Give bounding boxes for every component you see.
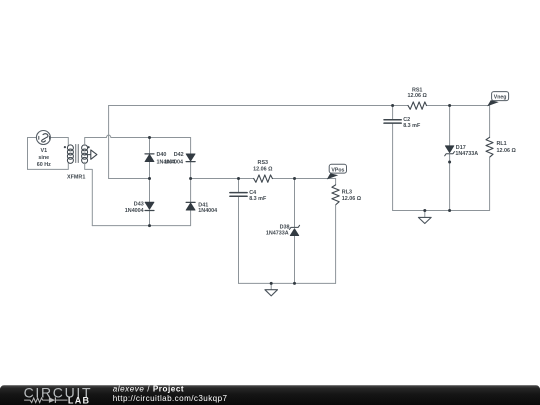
svg-text:D43: D43 [134,202,144,208]
capacitor C4 [230,193,247,197]
wire top rail right of RS1 [427,105,490,107]
diode D43 [145,202,154,210]
ground symbol (filter stage) [265,283,278,296]
svg-text:12.06 Ω: 12.06 Ω [253,167,273,173]
wire right ground rail [393,210,490,212]
wire mid rail RS3 to VPos corner [272,178,335,180]
junction dot bridge right mid [189,177,192,180]
resistor RS3 [254,175,273,182]
diode D40 [145,154,154,162]
transformer XFMR1 [64,144,97,163]
wire V1 top left segment [28,137,37,139]
junction dot D17 bottom [448,209,451,212]
svg-text:sine: sine [38,155,49,161]
core lines [76,144,78,162]
wire C4 branch top [238,179,240,193]
wire C2 branch bottom [392,124,394,211]
primary winding [67,145,73,151]
wire bridge right branch [190,138,192,226]
diode D42 [186,154,195,162]
svg-text:12.06 Ω: 12.06 Ω [342,196,362,202]
wire top rail left of RS1 [109,105,408,107]
wire D38 branch top [294,179,296,228]
wire transformer secondary bottom down to bridge bottom rail [85,162,93,225]
wire RL3 branch bottom [335,205,337,284]
svg-text:1N4004: 1N4004 [198,208,217,214]
secondary phase dot [88,146,90,148]
junction dot ground 1 [270,282,273,285]
wire top-left vertical from top rail [108,106,110,179]
diode D41 [186,202,195,210]
svg-text:http://circuitlab.com/c3ukqp7: http://circuitlab.com/c3ukqp7 [113,394,228,403]
junction dot bridge left mid [148,177,151,180]
wire mid rail bridge to RS3 [191,178,254,180]
wire C2 branch top [392,106,394,120]
node flag VPos [327,164,347,179]
svg-text:1N4733A: 1N4733A [266,231,289,237]
svg-text:D40: D40 [157,152,167,158]
junction dot bridge bottom [148,224,151,227]
resistor RS1 [408,102,427,109]
wire RL3 branch top [335,179,337,185]
svg-text:RL3: RL3 [342,190,352,196]
node flag Vneg [487,92,508,107]
zener diode D17 [445,146,455,156]
junction dot D17 top [448,104,451,107]
logo diode [49,397,55,403]
svg-text:VPos: VPos [331,167,344,173]
svg-text:D42: D42 [174,152,184,158]
svg-text:8.3 mF: 8.3 mF [403,123,421,129]
wire left mid to bridge [109,178,150,180]
junction dot D38 bottom [293,282,296,285]
junction dot bridge top [148,136,151,139]
junction dot ground 2 [423,209,426,212]
secondary winding [82,145,88,151]
footer background [0,385,540,405]
svg-text:60 Hz: 60 Hz [37,162,51,168]
wire bridge left branch [149,138,151,226]
resistor RL1 [486,137,493,157]
svg-text:RL1: RL1 [497,141,507,147]
FOOTER BAR [0,384,540,405]
svg-text:12.06 Ω: 12.06 Ω [497,148,517,154]
svg-text:alexeve / Project: alexeve / Project [113,385,184,394]
wire RL1 branch bottom [489,157,491,210]
svg-text:Vneg: Vneg [494,95,507,101]
wire mid bottom rail [239,282,336,284]
svg-text:XFMR1: XFMR1 [67,174,85,180]
wire D38 branch bottom [294,236,296,284]
svg-text:V1: V1 [41,148,48,154]
wire RL1 branch top [489,106,491,138]
svg-text:D38: D38 [280,224,290,230]
wire bridge bottom rail [92,225,190,227]
svg-text:LAB: LAB [68,396,90,405]
primary phase dot [64,146,66,148]
svg-text:1N4004: 1N4004 [164,160,183,166]
svg-text:RS3: RS3 [258,160,269,166]
logo resistor zigzag [24,398,49,403]
svg-text:8.3 mF: 8.3 mF [249,196,267,202]
ground symbol (regulator stage) [418,211,431,224]
svg-text:12.06 Ω: 12.06 Ω [408,93,428,99]
wire V1 bottom to transformer primary bottom [28,162,69,169]
svg-text:1N4733A: 1N4733A [455,151,478,157]
junction dot C2 top [391,104,394,107]
capacitor C2 [384,120,401,123]
svg-text:1N4004: 1N4004 [125,208,144,214]
wire V1 top right segment to transformer primary [50,138,68,146]
voltage source V1 [36,131,50,145]
wire C4 branch bottom [238,197,240,284]
junction dot C4 top [237,177,240,180]
wire transformer secondary top with hop over vertical [85,135,191,145]
resistor RL3 [332,185,339,205]
wire D17 branch bottom [449,154,451,211]
wire D17 branch top [449,106,451,146]
svg-text:C4: C4 [249,190,256,196]
zener diode D38 [289,225,299,235]
secondary arrow [85,154,91,156]
junction dot D17 mid [448,161,451,164]
wire V1 left side [27,138,29,170]
junction dot D38 top [293,177,296,180]
